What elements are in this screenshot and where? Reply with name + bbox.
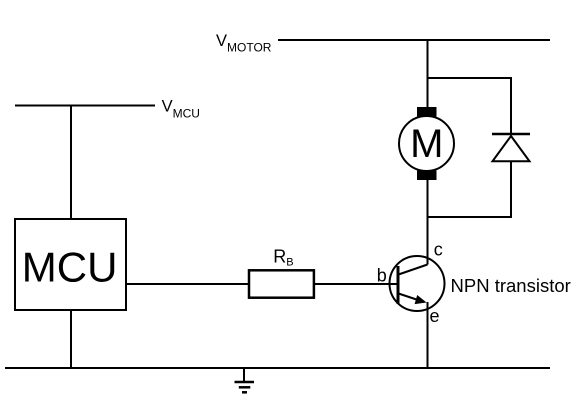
wire VMOTOR rail [278,39,550,41]
wire emitter drop [427,302,429,368]
transistor Q1 [390,256,445,311]
svg-text:e: e [430,306,440,326]
wire VMCU rail [15,105,155,107]
resistor RB [249,270,314,297]
MCU U1 [15,219,126,310]
motor M1 [399,107,454,180]
wire MCU supply drop [70,106,72,220]
wire motor supply drop [427,40,429,107]
wire diode bottom branch [428,161,512,217]
wire motor to collector [427,180,429,265]
svg-text:MCU: MCU [22,244,118,291]
wire MCU ground drop [70,310,72,368]
svg-text:M: M [410,122,443,166]
wire diode top branch [428,78,512,135]
wire ground rail [5,367,550,369]
svg-text:c: c [434,240,443,260]
svg-text:NPN transistor: NPN transistor [451,275,571,296]
diode D1 [492,134,530,161]
svg-text:b: b [377,266,387,286]
ground [235,368,255,392]
wire MCU to RB [126,283,249,285]
wire RB to base [314,283,397,285]
